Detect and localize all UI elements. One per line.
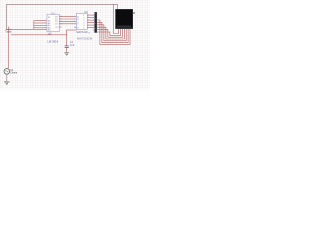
display LCD1 [116,9,133,29]
wire A mic to U1 [11,28,47,30]
display right pin stub [133,12,135,14]
svg-text:1Vrms: 1Vrms [10,71,18,74]
svg-text:2: 2 [45,20,46,22]
svg-text:2: 2 [74,19,75,21]
connector J1 [94,12,97,33]
stub U1 right pin [59,26,61,28]
svg-text:1nF: 1nF [70,43,75,47]
wire top loop (mic to display) [7,4,118,29]
J1 pin nubs [93,15,95,31]
wire V1 to ground [6,74,8,82]
capacitor C1 [65,46,69,48]
svg-text:3: 3 [45,23,46,25]
ground (V1) [4,82,10,85]
wire top branch down to display bundle [113,4,115,31]
wire C1 to ground [66,47,68,52]
wire bundle J1 to display [97,20,130,44]
svg-text:1: 1 [74,16,75,18]
voltage source V1 [4,69,10,75]
svg-text:4: 4 [45,25,46,27]
wire C1 vertical [66,30,68,46]
U2 pin name labels [77,15,85,30]
wire branch vertical [33,21,35,30]
ground (C1) [64,53,69,55]
wire mic to V1 [8,27,10,69]
microphone MK1 [6,28,11,32]
IC U1 (LM3914 driver) [47,14,59,31]
stub U2 left pin [74,26,76,28]
svg-text:U2: U2 [84,10,88,14]
svg-text:4: 4 [74,23,75,25]
J1 body highlights [95,13,96,29]
svg-text:1k2: 1k2 [47,32,52,36]
wires U2 to J1 [87,15,94,28]
svg-text:5: 5 [45,27,46,29]
svg-text:3: 3 [74,21,75,23]
wire B mic to C1 net [11,34,67,36]
display pin dots [118,25,131,28]
svg-text:MAX7219CW: MAX7219CW [77,37,93,40]
V1 sine mark [5,71,8,73]
U2 pin numbers [74,15,89,27]
wire stubs to U1 left pins [34,21,47,28]
IC U2 [76,13,87,29]
svg-text:U1: U1 [51,12,55,16]
svg-text:10: 10 [88,33,90,35]
display pin strip [116,27,133,28]
wire U2 left pin to C1 net [66,29,76,31]
wires U1 to U2 [59,17,76,24]
svg-text:LM 3914: LM 3914 [47,39,58,43]
svg-text:MAX7219: MAX7219 [76,31,88,34]
grid background [0,0,150,91]
U1 pin numbers [45,16,62,29]
U1 pin name labels [48,16,59,31]
